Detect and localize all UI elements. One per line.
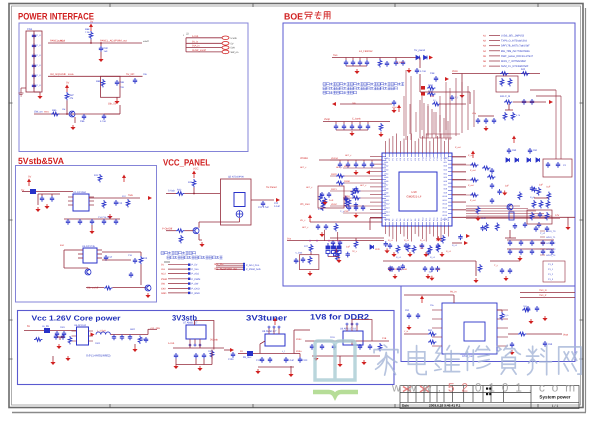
wire (U6 pins) xyxy=(72,340,77,342)
wire xyxy=(148,328,157,330)
wire xyxy=(102,251,141,253)
svg-text:U3 AIC1735: U3 AIC1735 xyxy=(82,245,96,248)
terminal (J2 pin 4) xyxy=(222,50,229,54)
capacitor C61 (bank row1) xyxy=(519,240,523,246)
svg-text:4.7uF: 4.7uF xyxy=(420,70,427,73)
svg-text:Y_in: Y_in xyxy=(404,330,409,333)
resistor R71 xyxy=(336,174,344,178)
capacitor C (below mid cluster a) xyxy=(401,264,405,270)
svg-text:P11: P11 xyxy=(425,157,428,160)
capacitor C44 (3V3 rail) xyxy=(366,124,370,130)
capacitor C17 xyxy=(102,219,106,225)
capacitor C48 xyxy=(530,99,534,105)
svg-text:P10: P10 xyxy=(421,157,424,160)
wire (1V8 bottom bus) xyxy=(312,355,380,357)
capacitor C90 xyxy=(99,46,103,52)
wire xyxy=(39,92,41,94)
section box BOE xyxy=(283,23,575,286)
svg-text:P_Von: P_Von xyxy=(192,268,200,271)
svg-text:LED: LED xyxy=(375,248,380,251)
resistor R17 xyxy=(126,199,130,207)
resistor R64 xyxy=(138,336,142,344)
svg-text:LVDS_T3: LVDS_T3 xyxy=(546,248,556,251)
wire xyxy=(299,354,301,358)
wire (drop 5) xyxy=(433,112,435,134)
svg-text:P_out: P_out xyxy=(470,199,476,202)
capacitor C117 xyxy=(358,344,362,350)
wire (routing vertical 0) xyxy=(455,78,457,136)
resistor R (below QFP left caps) xyxy=(336,253,340,261)
capacitor CE1 xyxy=(332,243,336,257)
ground (mid right extra) xyxy=(502,190,507,195)
capacitor C130 (below QFP) xyxy=(388,243,392,249)
svg-text:U10: U10 xyxy=(411,190,417,194)
ground (C96) xyxy=(509,350,514,355)
wire xyxy=(369,218,371,230)
svg-text:5VA: 5VA xyxy=(128,194,133,197)
capacitor C153 xyxy=(534,226,538,232)
svg-text:LVA12: LVA12 xyxy=(384,203,389,206)
U2 pin stubs xyxy=(68,196,73,198)
power flag (right) xyxy=(471,151,475,159)
capacitor C17 xyxy=(104,255,108,261)
svg-text:P_CKO: P_CKO xyxy=(192,288,200,291)
svg-text:on/off: on/off xyxy=(143,40,149,43)
resistor R77 xyxy=(309,244,313,252)
wire xyxy=(251,199,274,201)
QFP top pin wires xyxy=(385,141,387,153)
svg-text:1uF: 1uF xyxy=(346,245,351,248)
svg-text:P11: P11 xyxy=(425,218,428,221)
junction xyxy=(90,42,92,44)
capacitor C (upper right of bank) xyxy=(513,223,517,229)
resistor R94 xyxy=(476,206,480,214)
svg-text:VD9: VD9 xyxy=(443,191,447,194)
power arrow after diodes xyxy=(429,56,433,60)
svg-text:LVDS_T1: LVDS_T1 xyxy=(546,236,556,239)
ground (Q8) xyxy=(70,125,75,130)
svg-text:P6: P6 xyxy=(407,158,410,160)
power arrow below QFP xyxy=(466,234,470,238)
wire (QFP left net RXN0) xyxy=(343,182,382,184)
capacitor C74 (bank row2) xyxy=(550,249,554,255)
wire xyxy=(540,242,545,244)
capacitor C84 xyxy=(523,222,527,228)
capacitor C156 xyxy=(450,95,454,101)
junction xyxy=(309,240,311,242)
wire xyxy=(319,159,382,161)
svg-text:B/L_On: B/L_On xyxy=(215,263,224,266)
svg-text:LVA11: LVA11 xyxy=(384,199,389,202)
resistor R102 xyxy=(511,112,515,120)
wire xyxy=(116,97,118,99)
svg-text:1: 1 xyxy=(183,34,185,37)
wire xyxy=(59,337,61,340)
capacitor C54 xyxy=(370,162,374,168)
capacitor C13 xyxy=(114,200,118,206)
wire xyxy=(540,254,545,256)
capacitor C124 xyxy=(354,205,358,211)
wire xyxy=(64,249,78,251)
svg-text:P1: P1 xyxy=(388,158,391,160)
power arrow 5V-Panel xyxy=(276,198,280,202)
svg-text:5V: 5V xyxy=(161,264,164,267)
svg-text:LVA1: LVA1 xyxy=(384,161,388,164)
capacitor C41 (3V3 rail) xyxy=(342,124,346,130)
svg-text:C81: C81 xyxy=(533,149,538,152)
capacitor C92 xyxy=(416,313,420,319)
svg-text:VD33A: VD33A xyxy=(300,157,308,160)
wire xyxy=(440,103,466,105)
capacitor C162 xyxy=(492,118,496,124)
watermark glyph wang xyxy=(559,347,581,374)
svg-text:C_t: C_t xyxy=(455,96,459,99)
wire xyxy=(507,248,554,250)
svg-text:P1_1: P1_1 xyxy=(548,268,554,271)
svg-text:GND: GND xyxy=(161,292,167,295)
resistor R (right cluster R trio) xyxy=(537,187,541,195)
svg-text:LVA8: LVA8 xyxy=(384,188,388,191)
capacitor C50 xyxy=(338,162,342,168)
wire xyxy=(526,333,562,335)
ground (C90) xyxy=(98,57,103,62)
svg-text:C603: C603 xyxy=(95,342,101,345)
svg-text:1uF: 1uF xyxy=(329,199,334,202)
sub box (left filter) xyxy=(318,186,344,208)
svg-text:P13: P13 xyxy=(432,218,435,221)
wire xyxy=(505,237,516,239)
svg-text:NET_x: NET_x xyxy=(306,186,313,189)
wire xyxy=(111,334,149,336)
power arrow left xyxy=(366,170,370,174)
svg-text:5-Vsb: 5-Vsb xyxy=(231,37,238,40)
IC U6 AP1510 xyxy=(77,327,89,345)
wire (routing vertical 2) xyxy=(467,86,469,130)
wire (U3 pin) xyxy=(78,249,83,251)
wire (QFP left net RXP0) xyxy=(330,175,382,177)
capacitor C15 xyxy=(78,219,82,225)
U9 top pins xyxy=(346,325,348,331)
resistor R (right cluster R trio) xyxy=(547,192,551,200)
resistor R31 xyxy=(378,59,382,67)
junction xyxy=(328,240,330,242)
wire xyxy=(290,366,292,372)
svg-text:POWER INTERFACE: POWER INTERFACE xyxy=(18,12,94,23)
ground (below QFP 394) xyxy=(391,252,396,257)
svg-text:5V_in: 5V_in xyxy=(192,40,199,43)
resistor R (below QFP main) xyxy=(441,235,445,243)
resistor R93 xyxy=(470,193,478,197)
capacitor C35 xyxy=(394,60,398,66)
resistor R16 xyxy=(104,286,112,290)
resistor R12 xyxy=(98,174,102,182)
svg-text:LVA6: LVA6 xyxy=(384,180,388,183)
capacitor C160 xyxy=(476,118,480,124)
svg-text:R87: R87 xyxy=(70,94,75,97)
svg-text:N6: N6 xyxy=(483,60,487,63)
junction xyxy=(66,113,68,115)
capacitor C70 (bank row2) xyxy=(508,249,512,255)
svg-text:1uF: 1uF xyxy=(104,50,109,53)
connector CON1 body xyxy=(26,31,42,92)
svg-text:NET_x: NET_x xyxy=(300,166,307,169)
ground (R52) xyxy=(473,278,478,283)
ground (C143) xyxy=(392,274,397,279)
wire xyxy=(48,42,142,44)
svg-text:P8: P8 xyxy=(414,219,417,221)
svg-text:RXP1: RXP1 xyxy=(331,188,337,191)
ground (out caps) xyxy=(132,347,137,352)
svg-text:www.520101.com: www.520101.com xyxy=(391,381,582,395)
svg-text:5Vs: 5Vs xyxy=(333,54,338,57)
sub box (right band) xyxy=(543,261,565,282)
ground (in caps) xyxy=(65,356,70,361)
ground (1V8 b) xyxy=(361,360,366,365)
svg-text:P_ADJ_Con: P_ADJ_Con xyxy=(246,264,260,267)
svg-text:75R: 75R xyxy=(523,305,527,308)
svg-text:R_x1: R_x1 xyxy=(452,244,458,247)
QFP right pin wires xyxy=(452,156,466,158)
capacitor C (mid right extra) xyxy=(497,189,501,195)
svg-text:U7 AMS1117: U7 AMS1117 xyxy=(183,322,198,325)
capacitor C (below mid cluster b) xyxy=(435,266,439,272)
ground (R94) xyxy=(475,216,480,221)
wire xyxy=(166,230,176,232)
resistor R46 xyxy=(504,100,512,104)
wire xyxy=(52,356,54,360)
svg-text:R_x1: R_x1 xyxy=(396,256,402,259)
svg-text:5-Vsb: 5-Vsb xyxy=(192,35,199,38)
resistor R_FB xyxy=(34,338,42,342)
ground (C91) xyxy=(406,325,411,330)
ground (C123) xyxy=(353,213,358,218)
capacitor C18 xyxy=(129,272,133,278)
capacitor C4 (connector filter) xyxy=(32,63,36,69)
capacitor C32 (5V rail) xyxy=(358,60,362,66)
svg-text:3V3p: 3V3p xyxy=(324,118,331,121)
capacitor C64 (bank row1) xyxy=(550,240,554,246)
CJK note line1 (BOE) xyxy=(323,83,404,86)
svg-text:VD6: VD6 xyxy=(443,180,447,183)
svg-text:LVA14: LVA14 xyxy=(384,210,389,213)
svg-text:P17: P17 xyxy=(447,218,450,221)
wire xyxy=(359,58,361,61)
wire xyxy=(534,197,548,199)
wire (U3 pin) xyxy=(97,249,102,251)
sub box (R network) xyxy=(496,76,518,92)
capacitor C105 xyxy=(144,337,148,343)
capacitor C126 xyxy=(316,224,320,230)
svg-text:VD10: VD10 xyxy=(442,195,447,198)
capacitor C (left of QFP mid) xyxy=(354,186,358,192)
capacitor C111 xyxy=(268,357,272,363)
wire xyxy=(363,160,365,162)
capacitor C19 xyxy=(133,258,137,264)
svg-text:VD11: VD11 xyxy=(442,199,447,202)
svg-text:VD1: VD1 xyxy=(443,161,447,164)
diode D1 xyxy=(416,56,420,60)
svg-text:5V-Panel: 5V-Panel xyxy=(266,186,277,189)
extra long verticals above QFP xyxy=(405,70,407,140)
svg-text:P_GND: P_GND xyxy=(192,292,201,295)
wire xyxy=(189,344,191,348)
capacitor C31 (5V rail) xyxy=(351,60,355,66)
capacitor C151 xyxy=(490,183,494,189)
resistor R xyxy=(427,86,435,90)
wire (drop 7) xyxy=(445,104,447,130)
wire xyxy=(74,117,76,123)
capacitor C103 xyxy=(112,335,116,341)
watermark glyph zi xyxy=(497,345,521,374)
wire (J2 pin 4) xyxy=(186,51,222,53)
svg-text:J2: J2 xyxy=(186,33,189,36)
resistor R (left lower cluster) xyxy=(321,203,325,211)
sheet shadow line xyxy=(12,412,586,414)
wire xyxy=(359,122,361,125)
ground (12V rail) xyxy=(565,225,570,230)
wire xyxy=(198,222,200,228)
capacitor C12 xyxy=(50,196,54,202)
wire xyxy=(199,344,201,348)
svg-text:X5R: X5R xyxy=(403,268,408,271)
svg-text:P9: P9 xyxy=(418,158,421,160)
svg-text:U6 AP1510: U6 AP1510 xyxy=(74,324,87,327)
wire xyxy=(475,261,477,276)
svg-text:U8 AMS1117: U8 AMS1117 xyxy=(262,330,277,333)
power flag 5V xyxy=(89,24,93,32)
QFP left pin wires xyxy=(370,156,382,158)
diode D4 xyxy=(515,158,519,162)
svg-text:5VA_in: 5VA_in xyxy=(192,45,200,48)
svg-text:C_A: C_A xyxy=(37,84,42,87)
ground (below mid cluster a) xyxy=(387,267,392,272)
capacitor C118 xyxy=(368,344,372,350)
wire xyxy=(404,294,454,296)
svg-text:NET_x: NET_x xyxy=(336,166,343,169)
capacitor C114 xyxy=(310,344,314,350)
wire xyxy=(330,237,384,239)
wire xyxy=(343,122,345,125)
capacitor C3 (connector filter) xyxy=(32,53,36,59)
resistor R72 xyxy=(336,181,344,185)
capacitor C72 (bank row2) xyxy=(530,249,534,255)
ground (C110) xyxy=(255,369,260,374)
component (right lower) xyxy=(509,212,514,220)
svg-text:5V: 5V xyxy=(240,350,243,353)
ferrite bead L8 xyxy=(247,351,253,356)
wire (J2 pin 3) xyxy=(186,47,222,49)
capacitor C38 xyxy=(434,76,438,82)
capacitor C1 (connector filter) xyxy=(32,33,36,39)
resistor R (left lower cluster) xyxy=(323,197,327,205)
wire xyxy=(371,160,373,162)
svg-text:PWM: PWM xyxy=(161,278,167,281)
resistor R24 xyxy=(179,235,183,243)
U7 bottom pins xyxy=(189,339,191,344)
wire xyxy=(89,197,140,199)
wire xyxy=(239,218,241,222)
svg-text:P1_3: P1_3 xyxy=(548,278,554,281)
svg-text:SW1: SW1 xyxy=(44,111,50,114)
wire xyxy=(100,52,102,57)
svg-text:VD3: VD3 xyxy=(443,169,447,172)
svg-text:DPF17B_/N571/7alt/15dF: DPF17B_/N571/7alt/15dF xyxy=(501,45,530,48)
power arrow (U6 out) xyxy=(91,333,95,337)
inductor L7 xyxy=(96,332,110,335)
watermark glyph wei xyxy=(435,346,460,372)
svg-text:R_x1: R_x1 xyxy=(430,256,436,259)
svg-text:C113: C113 xyxy=(302,359,308,362)
ground (filter box) xyxy=(307,271,312,276)
net row (panel conn 1) xyxy=(216,263,243,265)
resistor R101 xyxy=(503,112,507,120)
capacitor C125 xyxy=(361,205,365,211)
svg-text:C_A: C_A xyxy=(37,44,42,47)
capacitor C96 xyxy=(510,342,514,348)
svg-text:LVA13: LVA13 xyxy=(384,207,389,210)
capacitor C110 xyxy=(260,357,264,363)
wire (U6 pins) xyxy=(89,340,94,342)
ground (C106) xyxy=(173,364,178,369)
svg-text:CK0: CK0 xyxy=(161,288,166,291)
svg-text:R86: R86 xyxy=(96,80,101,83)
diode D2 xyxy=(424,56,428,60)
wire xyxy=(50,330,77,332)
capacitor C93 xyxy=(526,306,530,312)
svg-text:VD16: VD16 xyxy=(442,218,447,221)
wire (U6 pins) xyxy=(72,335,77,337)
wire xyxy=(505,109,513,111)
svg-text:System power: System power xyxy=(539,395,570,400)
wire (vertical feed) xyxy=(324,230,326,241)
svg-text:5V_panel: 5V_panel xyxy=(414,49,425,52)
capacitor C134 (below QFP) xyxy=(420,243,424,249)
wire (drop 6) xyxy=(439,96,441,132)
wire (U6 pins) xyxy=(89,335,94,337)
wire (U3 pin) xyxy=(97,253,102,255)
glyph 专 xyxy=(315,11,322,19)
capacitor C144 xyxy=(397,266,401,272)
wire xyxy=(38,193,60,195)
power flag VCC xyxy=(192,171,196,179)
QFP pin ticks top/bottom xyxy=(385,153,387,157)
capacitor C146 xyxy=(430,266,434,272)
resistor R98 xyxy=(530,212,534,220)
svg-text:LVDS_T0: LVDS_T0 xyxy=(546,230,556,233)
capacitor C155 xyxy=(538,212,542,218)
svg-text:1uF: 1uF xyxy=(505,184,510,187)
svg-text:LVA3: LVA3 xyxy=(384,169,388,172)
capacitor C16 xyxy=(90,219,94,225)
wire xyxy=(335,122,337,125)
wire xyxy=(102,259,131,261)
svg-text:5-Vsb: 5-Vsb xyxy=(168,190,175,193)
power flag (U11) xyxy=(420,296,424,304)
wire (U6 pins) xyxy=(89,330,94,332)
wire xyxy=(238,353,247,355)
wire xyxy=(452,73,540,75)
wire xyxy=(513,101,546,103)
wire xyxy=(536,95,561,97)
capacitor C141 xyxy=(331,240,335,246)
resistor R61 xyxy=(428,332,436,336)
IC U11 body xyxy=(464,322,485,341)
svg-text:R12: R12 xyxy=(94,174,99,177)
wire xyxy=(508,104,510,110)
wire (QFP right net 3) xyxy=(452,171,466,173)
resistor R52 xyxy=(478,264,482,272)
svg-text:10k: 10k xyxy=(62,108,66,111)
